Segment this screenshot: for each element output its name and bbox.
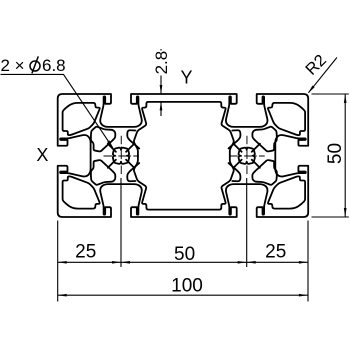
tapping hole right (serrated) xyxy=(239,148,255,164)
outboard channel bottom-right xyxy=(252,160,276,185)
corner chamber bottom-left xyxy=(63,176,100,208)
svg-text:2 ×: 2 × xyxy=(1,56,25,75)
core1 corner chamfer line bottom-right xyxy=(108,160,116,168)
leader line for corner radius R2 xyxy=(309,58,337,93)
extension line bottom core1 xyxy=(120,178,122,267)
core2 corner chamfer line bottom-left xyxy=(234,160,242,168)
tapping hole left (serrated) xyxy=(113,148,129,164)
extension line bottom-right xyxy=(307,221,309,302)
extension line bottom core2 xyxy=(246,178,248,267)
core1 corner chamfer line top-right xyxy=(108,144,116,152)
dimension 2.8 upper line with arrow xyxy=(160,49,162,94)
inboard rib wall top-right xyxy=(229,130,241,148)
extension line right bottom xyxy=(312,216,349,218)
diameter symbol xyxy=(30,61,40,71)
central hollow cavity xyxy=(134,102,234,210)
extension line right top xyxy=(312,93,349,95)
svg-text:50: 50 xyxy=(174,244,195,265)
dimension 2.8 lower arrow xyxy=(160,101,162,116)
corner chamber top-right xyxy=(268,103,305,135)
outboard channel bottom-left xyxy=(91,160,115,185)
centerline horizontal hole right xyxy=(229,155,265,157)
centerline horizontal hole left xyxy=(104,155,140,157)
inboard rib wall top-left xyxy=(127,130,139,148)
svg-text:100: 100 xyxy=(171,276,203,297)
extension line bottom-left xyxy=(57,221,59,302)
svg-text:50: 50 xyxy=(325,143,346,164)
dimension line 25/50/25 xyxy=(58,261,308,263)
dimension line 50 vertical xyxy=(344,94,346,217)
outboard channel top-left xyxy=(91,127,115,152)
leader line with underline for holes xyxy=(1,74,113,147)
core2 corner chamfer line top-right xyxy=(252,144,260,152)
outboard channel top-right xyxy=(252,127,276,152)
corner chamber top-left xyxy=(63,103,100,135)
svg-text:25: 25 xyxy=(75,242,96,263)
inboard rib wall bottom-right xyxy=(229,163,241,181)
svg-text:6.8: 6.8 xyxy=(42,56,66,75)
corner chamber bottom-right xyxy=(268,176,305,208)
centerline vertical hole right xyxy=(246,136,248,176)
core1 corner chamfer line bottom-left xyxy=(126,160,134,168)
svg-text:2.8: 2.8 xyxy=(152,51,171,75)
dimension line 100 xyxy=(58,294,308,296)
profile outer boundary with T-slot openings xyxy=(58,94,309,217)
core2 corner chamfer line top-left xyxy=(234,144,242,152)
svg-text:Y: Y xyxy=(180,67,192,87)
svg-text:25: 25 xyxy=(265,242,286,263)
svg-text:X: X xyxy=(36,145,48,165)
core1 corner chamfer line top-left xyxy=(126,144,134,152)
inboard rib wall bottom-left xyxy=(127,163,139,181)
centerline vertical hole left xyxy=(120,136,122,176)
core2 corner chamfer line bottom-right xyxy=(252,160,260,168)
